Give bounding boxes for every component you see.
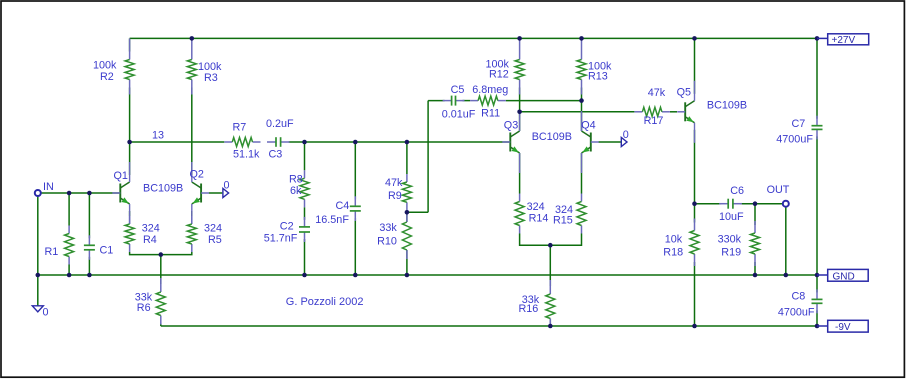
label C1 (100, 245, 114, 257)
capacitor C7 (812, 116, 823, 140)
label R8 value (289, 174, 303, 198)
svg-text:R15: R15 (553, 215, 573, 227)
resistor R2 (125, 39, 134, 95)
svg-text:R4: R4 (143, 234, 157, 246)
svg-text:0: 0 (623, 129, 629, 141)
wire Q3 collector (519, 112, 521, 131)
wire node 13 horizontal (130, 141, 225, 143)
junction C4 top node (353, 140, 358, 145)
svg-text:Q3: Q3 (504, 120, 518, 132)
wire C5 to R11 (463, 100, 471, 102)
junction stage1 emitters (159, 252, 164, 257)
junction Q4 collector node (579, 98, 584, 103)
wire Q3 emitter to R14 (519, 153, 521, 194)
svg-text:0: 0 (43, 307, 49, 319)
svg-text:Q4: Q4 (581, 120, 595, 132)
svg-text:330k: 330k (718, 233, 742, 245)
wire R19 top (754, 204, 756, 225)
wire feedback vertical (427, 101, 429, 213)
wire feedback stub (407, 211, 428, 213)
power label GND (817, 269, 868, 282)
wire R1 bottom (68, 265, 70, 276)
wire R3 bottom to Q2 collector (191, 88, 193, 176)
wire R8 to C2 (304, 207, 306, 220)
svg-text:+27V: +27V (832, 35, 856, 46)
wire R1 top (68, 193, 70, 226)
label Q1 (114, 170, 128, 182)
wire GND to C8 (816, 275, 818, 292)
svg-text:16.5nF: 16.5nF (315, 214, 349, 226)
wire C7 top lead (816, 38, 818, 118)
wire C7 bottom to GND (816, 136, 818, 275)
capacitor C1 (84, 235, 95, 259)
label 0 at Q2 (224, 180, 230, 192)
svg-text:C1: C1 (100, 245, 114, 257)
junction C1 top (87, 191, 92, 196)
wire R16 top (549, 245, 551, 286)
svg-text:0.2uF: 0.2uF (266, 118, 294, 130)
wire Q5 emitter to C6 node (694, 130, 696, 204)
junction Q5 collector rail (692, 36, 697, 41)
wire C6 to OUT (740, 203, 783, 205)
wire R11 to Q4 collector (506, 100, 582, 102)
label 0 ground (43, 307, 49, 319)
transistor Q1 (112, 162, 129, 224)
label BC109B Q5 (707, 99, 747, 111)
junction R18 bottom -9V (692, 324, 697, 329)
wire Q4 collector (581, 101, 583, 131)
svg-text:GND: GND (833, 271, 855, 282)
label BC109B stage1 (143, 183, 183, 195)
resistor R10 (402, 213, 411, 259)
resistor R4 (125, 216, 134, 252)
svg-text:-9V: -9V (835, 322, 851, 333)
svg-text:R17: R17 (644, 115, 664, 127)
wire R8 top (304, 142, 306, 170)
label Q4 (581, 120, 595, 132)
svg-text:6.8meg: 6.8meg (472, 84, 508, 96)
junction C7 top rail (815, 36, 820, 41)
label R2 value (93, 60, 117, 84)
svg-text:R14: R14 (529, 213, 549, 225)
svg-text:Q5: Q5 (677, 87, 691, 99)
wire R10 bottom (406, 250, 408, 275)
junction C4 bottom (353, 273, 358, 278)
svg-text:C5: C5 (451, 84, 465, 96)
svg-text:0: 0 (224, 180, 230, 192)
junction C1 bottom (87, 273, 92, 278)
resistor R1 (65, 226, 74, 265)
resistor R18 (690, 219, 699, 267)
label C4 value (315, 200, 349, 226)
wire OUT down to GND (785, 207, 787, 275)
svg-text:C7: C7 (792, 118, 806, 130)
svg-text:C2: C2 (280, 221, 294, 233)
wire C1 bottom (88, 257, 90, 275)
svg-text:33k: 33k (379, 222, 397, 234)
svg-text:Q2: Q2 (190, 169, 204, 181)
svg-text:R1: R1 (45, 246, 59, 258)
svg-text:6k: 6k (290, 185, 302, 197)
svg-text:10k: 10k (665, 233, 683, 245)
wire Q2 base to ground arrow (209, 192, 223, 194)
wire R6 top (160, 255, 162, 284)
resistor R13 (577, 39, 586, 95)
svg-text:51.7nF: 51.7nF (264, 233, 298, 245)
transistor Q5 (677, 81, 694, 143)
svg-text:R3: R3 (204, 72, 218, 84)
wire R18 bottom to -9V (694, 262, 696, 326)
wire Q2 emitter to R5 (191, 211, 193, 216)
label R16 value (519, 294, 540, 315)
label C6 value (719, 185, 744, 223)
transistor Q4 (582, 111, 599, 173)
wire C6 node to R18 (694, 204, 696, 223)
label R3 value (198, 61, 222, 84)
junction R1 top (67, 191, 72, 196)
power label +27V (817, 34, 869, 46)
transistor Q3 (502, 111, 519, 173)
label R12 value (486, 59, 510, 81)
svg-text:C8: C8 (792, 290, 806, 302)
wire feedback to C5 (428, 100, 445, 102)
resistor R19 (751, 221, 760, 266)
capacitor C2 (299, 217, 310, 242)
node IN terminal (35, 190, 41, 196)
svg-text:C3: C3 (269, 149, 283, 161)
wire R9 to R10 junction (406, 210, 408, 222)
capacitor C5 (443, 96, 465, 106)
resistor R5 (187, 216, 196, 252)
wire Q4 base to ground arrow (599, 141, 621, 143)
wire stage1 emitter join (130, 252, 192, 255)
svg-text:47k: 47k (648, 87, 666, 99)
wire ground lead (37, 275, 39, 306)
resistor R8 (300, 170, 309, 207)
label node 13 (152, 130, 164, 142)
wire R9 top (406, 142, 408, 174)
junction R9 top node (405, 140, 410, 145)
wire Q5 collector (694, 38, 696, 93)
svg-text:324: 324 (204, 223, 222, 235)
wire +27V rail (130, 38, 817, 51)
svg-text:R5: R5 (208, 234, 222, 246)
label R15 value (553, 204, 573, 227)
svg-text:BC109B: BC109B (707, 99, 747, 111)
resistor R14 (515, 194, 524, 234)
svg-text:10uF: 10uF (719, 211, 744, 223)
resistor R9 (402, 174, 411, 210)
wire R19 bottom (754, 262, 756, 275)
wire C3 to Q3 base (289, 141, 511, 143)
capacitor C8 (812, 289, 823, 313)
wire stage2 emitter join (520, 234, 582, 246)
svg-text:BC109B: BC109B (532, 131, 572, 143)
junction node 13 (127, 140, 132, 145)
svg-text:13: 13 (152, 130, 164, 142)
svg-text:R11: R11 (481, 108, 500, 120)
junction R19 bottom (753, 273, 758, 278)
svg-text:4700uF: 4700uF (778, 307, 815, 319)
label R6 value (135, 292, 153, 315)
wire GND rail (38, 274, 817, 276)
node OUT terminal (783, 201, 789, 207)
junction OUT gnd (784, 273, 789, 278)
wire Q3 collector to R17 (520, 111, 635, 113)
label Q3 (504, 120, 518, 132)
svg-text:R13: R13 (588, 70, 608, 82)
svg-text:Q1: Q1 (114, 170, 128, 182)
capacitor C3 (267, 137, 290, 147)
svg-text:47k: 47k (385, 177, 403, 189)
label R5 value (204, 223, 222, 247)
wire Q1 emitter to R4 (129, 211, 131, 216)
svg-text:C6: C6 (730, 185, 744, 197)
wire C8 bottom to -9V (816, 310, 818, 326)
svg-text:R18: R18 (663, 247, 683, 259)
junction R16 bottom -9V (548, 324, 553, 329)
svg-text:R9: R9 (388, 190, 402, 202)
power label -9V (817, 320, 868, 333)
svg-text:324: 324 (142, 223, 160, 235)
wire R2 bottom to Q1 collector (129, 88, 131, 176)
junction C7 bottom gnd (815, 273, 820, 278)
svg-text:4700uF: 4700uF (776, 134, 813, 146)
svg-text:R10: R10 (377, 236, 397, 248)
label Q2 (190, 169, 204, 181)
wire R17 to Q5 base (670, 111, 677, 113)
text author (286, 296, 364, 308)
ground arrow node 0 at Q4 (621, 138, 627, 147)
junction stage2 emitters (548, 243, 553, 248)
resistor R15 (577, 194, 586, 234)
svg-text:51.1k: 51.1k (233, 149, 260, 161)
junction R8 top node (302, 140, 307, 145)
resistor R3 (187, 39, 196, 95)
label C5 value (442, 84, 476, 121)
wire C2 bottom (304, 239, 306, 275)
wire R13 bottom (581, 88, 583, 101)
resistor R7 (224, 138, 260, 147)
svg-text:BC109B: BC109B (143, 183, 183, 195)
label R17 value (644, 87, 666, 127)
label OUT (767, 184, 790, 196)
wire Q4 emitter to R15 (581, 153, 583, 194)
capacitor C6 (719, 199, 742, 209)
resistor R17 (634, 107, 670, 116)
svg-text:100k: 100k (93, 60, 117, 72)
wire IN to Q1 base (41, 192, 120, 194)
junction R1 bottom (67, 273, 72, 278)
transistor Q2 (192, 162, 209, 224)
label R4 value (142, 223, 160, 247)
wire C4 top (354, 142, 356, 199)
resistor R16 (546, 280, 555, 326)
svg-text:C4: C4 (336, 200, 350, 212)
wire -9V rail (161, 325, 817, 327)
svg-text:G. Pozzoli 2002: G. Pozzoli 2002 (286, 296, 364, 308)
junction C2 bottom (302, 273, 307, 278)
wire R6 bottom to -9V (160, 324, 162, 327)
label C7 value (776, 118, 813, 146)
svg-text:R12: R12 (489, 69, 509, 81)
junction C8 bottom -9V (815, 324, 820, 329)
junction R19 top node (753, 201, 758, 206)
junction IN gnd (36, 273, 41, 278)
resistor R11 (470, 96, 506, 105)
wire R12 bottom (519, 88, 521, 112)
junction R13 top (579, 36, 584, 41)
label R1 (45, 246, 59, 258)
label R10 value (377, 222, 397, 248)
junction R10 bottom (405, 273, 410, 278)
label C3 (266, 118, 294, 161)
label R9 value (385, 177, 403, 202)
svg-text:R16: R16 (519, 303, 539, 315)
label R18 value (663, 233, 683, 258)
label 0 at Q4 (623, 129, 629, 141)
label R7 (233, 122, 261, 161)
label C2 value (264, 221, 298, 245)
ground symbol node 0 (32, 306, 43, 312)
junction R9 R10 feedback (405, 210, 410, 215)
wire IN down to GND (37, 196, 39, 275)
wire R16 bottom (549, 319, 551, 327)
resistor R6 (156, 278, 165, 325)
wire C1 top (88, 193, 90, 238)
junction Q5 emitter C6 (692, 201, 697, 206)
svg-text:OUT: OUT (767, 184, 790, 196)
svg-text:R6: R6 (137, 302, 151, 314)
svg-text:R7: R7 (233, 122, 247, 134)
label R13 value (588, 61, 612, 83)
svg-text:0.01uF: 0.01uF (442, 109, 476, 121)
wire C4 bottom (354, 218, 356, 275)
wire Q5 emitter to C6 (695, 203, 722, 205)
junction R12 top (517, 36, 522, 41)
svg-text:R2: R2 (100, 71, 114, 83)
label R19 value (718, 233, 742, 258)
label C8 value (778, 290, 815, 318)
svg-text:R8: R8 (289, 174, 303, 186)
svg-text:324: 324 (527, 201, 545, 213)
label R11 value (472, 84, 508, 120)
label BC109B stage2 (532, 131, 572, 143)
resistor R12 (515, 39, 524, 95)
junction Q3 collector node (517, 110, 522, 115)
label IN (43, 181, 54, 193)
junction R3 top (190, 36, 195, 41)
ground arrow node 0 at Q2 (223, 189, 229, 198)
label Q5 (677, 87, 691, 99)
label R14 value (527, 201, 549, 225)
svg-text:IN: IN (43, 181, 54, 193)
svg-text:R19: R19 (721, 247, 741, 259)
capacitor C4 (350, 196, 361, 221)
